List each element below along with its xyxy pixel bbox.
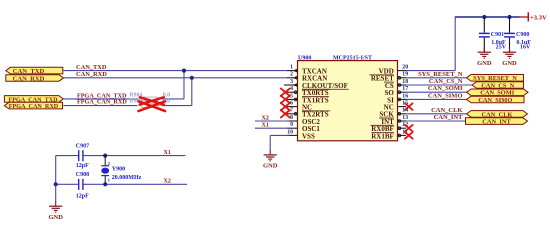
svg-text:17: 17 (402, 86, 408, 92)
capacitor C900 (504, 17, 515, 52)
port CAN_INT (466, 118, 528, 126)
port CAN_TXD (6, 67, 63, 75)
crystal Y900 (101, 156, 110, 185)
svg-text:CAN_RXD: CAN_RXD (13, 75, 45, 82)
port CAN_CS_N (472, 82, 524, 90)
wire X1 to OSC1 (255, 127, 289, 129)
pin 5 TX1RTS (287, 93, 329, 104)
pin 14 SCK (379, 108, 408, 119)
wire caps to ground (55, 156, 57, 202)
pin 12 RX0BF (371, 122, 409, 133)
svg-text:9: 9 (290, 122, 293, 128)
wire X1 right (83, 155, 185, 157)
svg-text:CAN_SIMO: CAN_SIMO (428, 92, 463, 99)
resistor R905 (137, 104, 162, 108)
svg-text:CAN_CS_N: CAN_CS_N (481, 82, 514, 89)
svg-text:18: 18 (402, 79, 408, 85)
wire +3.3V rail (455, 16, 519, 18)
DNI X over R904 (140, 97, 164, 104)
ground at C900 (502, 47, 517, 67)
svg-text:X1: X1 (262, 123, 269, 129)
wire riser TXD (183, 71, 185, 99)
svg-text:SYS_RESET_N: SYS_RESET_N (473, 75, 517, 82)
port FPGA_CAN_RXD (4, 102, 62, 110)
no-connect X pin 6 (281, 103, 290, 111)
port CAN_CLK (467, 111, 528, 119)
wire CAN_CS_N (406, 84, 472, 86)
svg-text:C901: C901 (491, 32, 504, 38)
svg-text:CAN_CLK: CAN_CLK (482, 111, 513, 118)
svg-text:25V: 25V (496, 45, 507, 51)
resistor R904 (137, 97, 162, 101)
wire CAN_INT (406, 120, 466, 122)
capacitor C907 (79, 150, 83, 161)
pin 13 INT (381, 115, 408, 126)
junction on CAN_RXD (190, 76, 194, 80)
pin 6 NC (287, 101, 312, 112)
wire FPGA_CAN_TXD left (63, 98, 137, 100)
svg-text:CAN_CLK: CAN_CLK (431, 107, 462, 114)
svg-text:SYS_RESET_N: SYS_RESET_N (418, 71, 463, 78)
wire X2 right (83, 183, 187, 185)
svg-text:2: 2 (108, 161, 111, 166)
wire CAN_SIMO (406, 98, 467, 100)
svg-text:5: 5 (290, 93, 293, 99)
svg-text:X2: X2 (164, 179, 171, 185)
svg-text:Y900: Y900 (112, 167, 125, 173)
svg-text:20: 20 (402, 65, 408, 71)
svg-text:U900: U900 (298, 56, 311, 62)
wire FPGA_CAN_RXD right (162, 105, 192, 107)
svg-text:16V: 16V (520, 45, 531, 51)
svg-text:FPGA_CAN_RXD: FPGA_CAN_RXD (77, 99, 127, 106)
svg-text:MCP2515-I/ST: MCP2515-I/ST (333, 56, 372, 62)
pin 2 RXCAN (287, 72, 327, 83)
svg-text:CAN_SIMO: CAN_SIMO (478, 97, 512, 104)
svg-text:2: 2 (290, 72, 293, 78)
ground at crystal caps (48, 201, 63, 221)
wire FPGA_CAN_TXD right (162, 98, 184, 100)
junction at X2 wire (54, 182, 58, 186)
no-connect X pin 4 (281, 88, 290, 96)
svg-text:C907: C907 (76, 144, 89, 150)
svg-text:3: 3 (290, 79, 293, 85)
svg-text:GND: GND (263, 163, 278, 170)
svg-text:4: 4 (290, 86, 293, 92)
pin 18 CS (384, 79, 408, 90)
svg-text:1: 1 (290, 65, 293, 71)
wire X2 left (56, 183, 78, 185)
svg-text:+3.3V: +3.3V (530, 14, 547, 21)
pin 9 OSC1 (287, 122, 320, 133)
pin 7 TX2RTS (287, 108, 330, 119)
capacitor C901 (479, 17, 490, 52)
wire FPGA_CAN_RXD left (63, 105, 137, 107)
wire VSS (270, 134, 289, 136)
svg-text:GND: GND (48, 214, 63, 221)
port CAN_RXD (6, 75, 64, 83)
svg-text:CAN_TXD: CAN_TXD (13, 68, 45, 75)
pin 10 VSS (287, 129, 315, 140)
junction on CAN_TXD (182, 69, 186, 73)
pin 17 SO (384, 86, 408, 97)
pin 19 RESET (369, 72, 408, 83)
wire CAN_TXD (63, 70, 288, 72)
pin 4 TX0RTS (287, 86, 330, 97)
svg-text:12pF: 12pF (76, 193, 89, 199)
svg-text:20.000MHz: 20.000MHz (112, 175, 142, 181)
pin 15 NC (384, 101, 409, 112)
junction crystal top (103, 154, 107, 158)
svg-text:C908: C908 (76, 172, 89, 178)
power +3.3V symbol (520, 12, 547, 21)
wire CAN_SOMI (406, 91, 467, 93)
junction crystal bottom (103, 182, 107, 186)
no-connect X pin 7 (281, 110, 290, 118)
svg-text:FPGA_CAN_RXD: FPGA_CAN_RXD (9, 104, 59, 110)
op-amp U900 body (MCP2515) (298, 61, 398, 141)
svg-text:CAN_CS_N: CAN_CS_N (429, 78, 463, 85)
svg-text:CAN_RXD: CAN_RXD (76, 71, 107, 78)
port CAN_SIMO (467, 96, 525, 104)
svg-text:RX1BF: RX1BF (371, 132, 394, 140)
svg-text:14: 14 (402, 108, 408, 114)
svg-text:13: 13 (402, 115, 408, 121)
svg-text:X1: X1 (164, 150, 171, 156)
svg-text:7: 7 (290, 108, 293, 114)
junction C901 (482, 15, 486, 19)
wire VDD (406, 70, 455, 72)
wire riser RXD (191, 78, 193, 106)
svg-text:GND: GND (477, 60, 492, 67)
svg-text:6: 6 (290, 101, 293, 107)
svg-text:C900: C900 (516, 32, 529, 38)
wire X1 left (56, 155, 78, 157)
pin 1 TXCAN (287, 65, 327, 76)
svg-text:GND: GND (502, 60, 517, 67)
wire VDD riser (454, 16, 456, 70)
ground at VSS (263, 150, 278, 170)
wire VSS down (269, 135, 271, 150)
svg-text:CAN_INT: CAN_INT (434, 114, 464, 121)
capacitor C908 (79, 179, 83, 190)
svg-text:CAN_TXD: CAN_TXD (76, 64, 107, 71)
wire CAN_CLK (406, 113, 467, 115)
svg-text:10: 10 (287, 129, 293, 135)
svg-text:1: 1 (108, 177, 111, 182)
no-connect X pin 11 (405, 132, 413, 139)
svg-text:19: 19 (402, 72, 408, 78)
svg-text:VSS: VSS (302, 132, 315, 140)
svg-text:CAN_SOMI: CAN_SOMI (428, 85, 463, 92)
no-connect X pin 12 (405, 125, 413, 132)
ground at C901 (477, 47, 492, 67)
junction C900 (507, 15, 511, 19)
wire SYS_RESET_N (406, 77, 467, 79)
svg-text:8: 8 (290, 115, 293, 121)
port CAN_SOMI (467, 89, 529, 97)
svg-text:12pF: 12pF (76, 163, 89, 169)
svg-text:X2: X2 (262, 116, 269, 122)
no-connect X pin 15 (405, 103, 413, 110)
pin 8 OSC2 (287, 115, 320, 126)
pin 16 SI (387, 93, 408, 104)
port SYS_RESET_N (467, 75, 524, 83)
wire CAN_RXD (64, 77, 288, 79)
pin 11 RX1BF (371, 129, 408, 140)
no-connect X pin 5 (281, 96, 290, 104)
pin 20 VDD (379, 65, 409, 76)
svg-text:CAN_SOMI: CAN_SOMI (480, 90, 515, 97)
wire X2 to OSC2 (255, 120, 289, 122)
pin 3 CLKOUT/SOF (284, 79, 349, 90)
svg-text:16: 16 (402, 93, 408, 99)
port FPGA_CAN_TXD (4, 96, 63, 104)
DNI X over R905 (139, 101, 166, 111)
svg-text:CAN_INT: CAN_INT (482, 119, 511, 126)
